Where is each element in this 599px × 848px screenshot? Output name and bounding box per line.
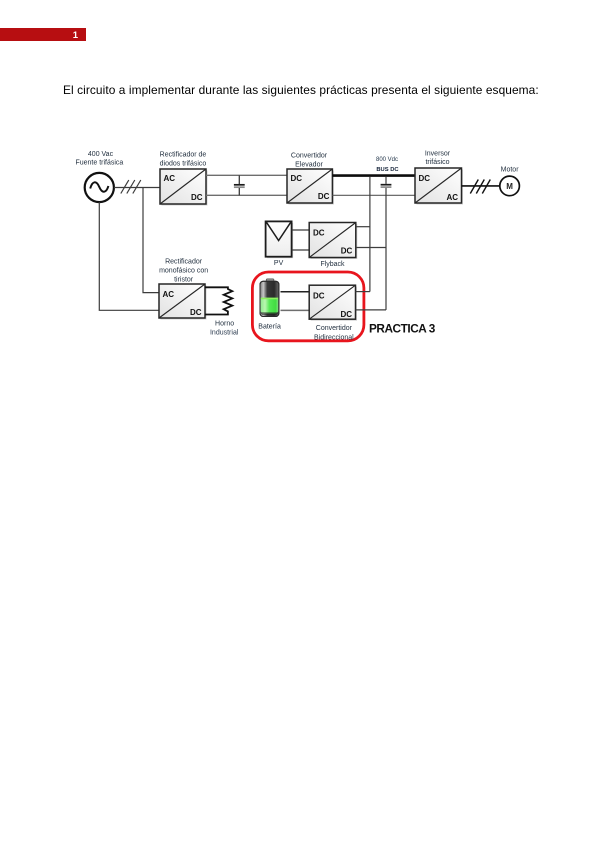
svg-text:AC: AC: [446, 193, 458, 202]
svg-text:Industrial: Industrial: [210, 330, 239, 337]
svg-text:DC: DC: [291, 174, 303, 183]
svg-text:Fuente trifásica: Fuente trifásica: [75, 159, 123, 166]
svg-text:DC: DC: [341, 247, 353, 256]
label Horno Industrial: [210, 320, 239, 336]
svg-text:DC: DC: [340, 310, 352, 319]
label Inversor trifasico: [425, 150, 451, 166]
rectifier B1 (Rectificador de diodos trifasico): [160, 169, 208, 206]
DC bus thick wire: [332, 174, 415, 177]
wire rectifier to boost top rail: [206, 174, 287, 176]
resistor R1 horno industrial: [205, 287, 232, 314]
wire inverter to motor: [462, 185, 501, 187]
flyback converter B4: [309, 223, 357, 260]
svg-text:Horno: Horno: [215, 320, 234, 327]
svg-text:monofásico con: monofásico con: [159, 268, 208, 275]
vertical net wire node A (x=370): [369, 177, 371, 292]
vertical net wire node B (x=386): [385, 188, 387, 310]
svg-text:DC: DC: [318, 192, 330, 201]
wire PV to flyback bottom: [292, 249, 310, 251]
svg-text:DC: DC: [419, 174, 431, 183]
svg-text:Rectificador: Rectificador: [165, 259, 203, 266]
wire flyback top output to node A: [356, 226, 370, 228]
svg-text:AC: AC: [164, 174, 176, 183]
svg-text:PV: PV: [274, 260, 284, 267]
svg-text:AC: AC: [163, 290, 175, 299]
motor M1: [500, 176, 520, 196]
PV panel: [266, 221, 294, 258]
svg-text:Rectificador de: Rectificador de: [160, 151, 207, 158]
svg-text:Batería: Batería: [258, 324, 281, 331]
wire from source bottom to thyristor rectifier bottom input: [99, 202, 159, 310]
capacitor C1: [234, 175, 245, 195]
boost converter B2 (Convertidor Elevador): [287, 169, 334, 205]
label Rectificador de diodos trifasico: [160, 151, 207, 167]
svg-text:Bidireccional: Bidireccional: [314, 334, 354, 341]
svg-text:trifásico: trifásico: [425, 159, 449, 166]
svg-text:DC: DC: [313, 291, 325, 300]
three-phase slash marks: [121, 180, 141, 194]
bus capacitor C2 on x=386: [381, 177, 392, 187]
wire battery to bidirectional top: [281, 291, 310, 293]
svg-text:M: M: [506, 182, 513, 191]
svg-text:Elevador: Elevador: [295, 161, 323, 168]
svg-text:Inversor: Inversor: [425, 150, 451, 157]
inverter B3 (Inversor trifasico): [415, 168, 463, 205]
wire battery to bidirectional bottom: [281, 309, 310, 311]
source G1 400Vac three-phase circle: [85, 173, 114, 202]
wire PV to flyback top: [292, 229, 310, 231]
bidirectional converter B5: [309, 285, 357, 321]
svg-text:Flyback: Flyback: [320, 261, 345, 268]
label Convertidor Bidireccional: [314, 325, 354, 341]
paragraph: [63, 83, 599, 97]
label 800 Vdc BUS DC: [376, 157, 399, 173]
svg-text:DC: DC: [191, 193, 203, 202]
bus bottom rail wire: [332, 194, 415, 196]
svg-text:400 Vac: 400 Vac: [88, 151, 114, 158]
label 400 Vac / Fuente trifasica: [75, 151, 123, 167]
wire bidirectional top output to node A: [356, 291, 370, 293]
label Convertidor Elevador: [291, 152, 328, 168]
svg-text:DC: DC: [190, 308, 202, 317]
svg-text:diodos trifásico: diodos trifásico: [160, 161, 207, 168]
svg-text:Convertidor: Convertidor: [291, 152, 328, 159]
svg-text:DC: DC: [313, 228, 325, 237]
svg-text:Motor: Motor: [501, 167, 520, 174]
wire flyback bottom output to node B: [356, 247, 386, 249]
svg-text:800 Vdc: 800 Vdc: [376, 157, 398, 163]
three-phase slash marks motor side: [470, 180, 490, 194]
wire source to rectifier: [114, 187, 161, 189]
battery icon: [260, 279, 279, 317]
svg-text:Convertidor: Convertidor: [316, 325, 353, 332]
thyristor rectifier B6 (Rectificador monofasico con tiristor): [159, 284, 207, 320]
wire bidirectional bottom output to node B: [356, 309, 387, 311]
node junction at x=143: [0, 0, 1, 1]
page number bar: [0, 28, 86, 41]
svg-text:tiristor: tiristor: [174, 277, 194, 284]
wire rectifier to boost bottom rail: [206, 194, 287, 196]
wire down from junction to thyristor rectifier top input: [143, 188, 160, 293]
label Rectificador monofasico con tiristor: [159, 259, 208, 284]
red highlight rounded box PRACTICA 3: [252, 272, 364, 341]
svg-text:BUS DC: BUS DC: [376, 167, 399, 173]
svg-text:PRACTICA 3: PRACTICA 3: [369, 322, 436, 336]
